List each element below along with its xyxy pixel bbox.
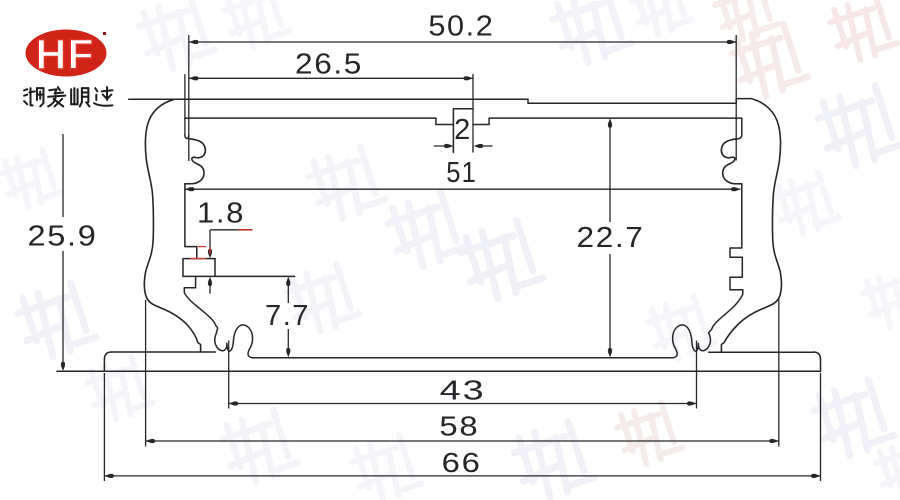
- left outer wall (S-curve) landing on left foot: [144, 99, 200, 351]
- left lower step & inner diagonal to bottom boss: [184, 276, 217, 332]
- dim 25.9 (overall height): [62, 134, 64, 217]
- dim 1.8 leader: [209, 230, 211, 253]
- interior floor: [253, 357, 673, 359]
- svg-text:58: 58: [439, 411, 479, 442]
- lid underside right: [473, 118, 742, 139]
- svg-text:22.7: 22.7: [577, 222, 645, 254]
- svg-text:51: 51: [446, 157, 477, 189]
- right outer wall (S-curve): [721, 99, 781, 352]
- dim 66 (overall width): [103, 373, 105, 481]
- interior shelf (7.7 reference): [183, 275, 295, 277]
- dim 26.5: [189, 77, 473, 79]
- dim 51 (interior width): [185, 188, 741, 190]
- base plate outline: [104, 352, 111, 360]
- svg-text:2: 2: [454, 114, 472, 146]
- wall top rim right: [736, 99, 751, 104]
- dim 22.7 (interior height): [609, 122, 611, 222]
- left mounting flange top: [112, 351, 216, 353]
- screw boss top-right: [721, 139, 741, 184]
- screw boss bottom-right: [673, 325, 711, 358]
- dim 58 (body width): [145, 300, 147, 447]
- red highlight artifacts near 1.8: [238, 229, 252, 231]
- company name 鸿发顺达 (drawn strokes): [24, 88, 43, 106]
- svg-text:50.2: 50.2: [428, 11, 494, 43]
- screw boss top-left: [185, 139, 205, 184]
- watermark pseudo-characters: [135, 0, 216, 75]
- svg-text:43: 43: [440, 375, 486, 406]
- lid left edge / groove: [184, 75, 186, 136]
- svg-text:7.7: 7.7: [265, 300, 310, 332]
- dim 43 (boss centers): [228, 341, 230, 409]
- lid underside left: [185, 118, 454, 124]
- dim 50.2 top: [189, 41, 736, 43]
- inner wall left with slot + steps: [185, 184, 197, 259]
- dim 7.7: [287, 281, 289, 303]
- top lid upper surface: [129, 99, 737, 103]
- svg-text:HF: HF: [35, 31, 94, 79]
- right mounting flange top: [709, 351, 814, 353]
- dim 2 (slot): [434, 145, 452, 147]
- inner wall right with serrations: [709, 184, 743, 333]
- svg-text:1.8: 1.8: [197, 198, 245, 230]
- svg-text:25.9: 25.9: [28, 221, 98, 253]
- center slot: [453, 109, 473, 153]
- svg-text:26.5: 26.5: [295, 49, 363, 81]
- HF logo ellipse: [26, 30, 107, 77]
- screw boss bottom-left: [215, 325, 253, 358]
- svg-text:66: 66: [442, 447, 482, 478]
